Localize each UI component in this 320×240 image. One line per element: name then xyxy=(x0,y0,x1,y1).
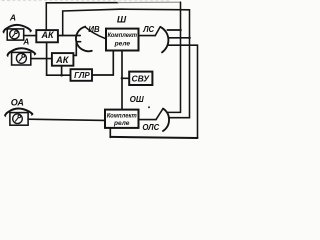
relay box Комплект реле 2 xyxy=(105,110,139,128)
node junction СВУ branch xyxy=(121,77,124,80)
wire АК1 to ИВ arc xyxy=(58,35,80,37)
svg-text:Комплект: Комплект xyxy=(108,32,138,39)
selector ЛС arc (line selector bank) xyxy=(161,27,169,53)
wire Комплект реле 2 bottom to bottom line xyxy=(109,128,111,137)
selector ОЛС wiper xyxy=(156,109,163,120)
selector ОЛС arc xyxy=(163,109,169,131)
svg-text:реле: реле xyxy=(114,41,131,48)
svg-text:реле: реле xyxy=(113,120,130,127)
selector ИВ wiper xyxy=(85,27,106,39)
wire outer top bus (Ш upper) xyxy=(46,3,118,30)
wire ГЛР right to Комплект реле 1 bottom xyxy=(92,51,113,75)
wire АК1 bottom to ГЛР line xyxy=(46,42,48,75)
svg-text:Комплект: Комплект xyxy=(107,113,137,120)
wire Комплект реле 2 to ОЛС wiper xyxy=(139,119,157,121)
node junction bus A xyxy=(179,29,182,32)
wire ЛС outlet 1 xyxy=(167,29,180,31)
wire branch to СВУ xyxy=(122,77,129,79)
ink speck xyxy=(148,106,150,108)
svg-text:ИВ: ИВ xyxy=(88,25,100,34)
svg-text:А: А xyxy=(9,13,16,23)
svg-text:СВУ: СВУ xyxy=(132,74,151,84)
svg-text:А: А xyxy=(22,37,29,47)
wire АК2 bottom to ГЛР line xyxy=(61,66,63,76)
relay box Комплект реле 1 xyxy=(106,29,139,51)
selector ИВ arc (call finder bank) xyxy=(76,27,92,52)
wire bus A right (from outer line to ОЛС output) xyxy=(168,2,181,112)
node junction ГЛР line xyxy=(60,74,63,77)
wire ЛС outlet 2 xyxy=(168,37,189,39)
telephone ОА xyxy=(5,109,33,126)
resistor-style box АК2 xyxy=(52,53,74,66)
wire АК2 right to ИВ arc inlet xyxy=(73,42,80,56)
wire to ГЛР xyxy=(47,74,71,76)
wire bottom line xyxy=(110,137,197,138)
resistor-style box АК1 xyxy=(36,30,58,42)
svg-text:ЛС: ЛС xyxy=(142,25,154,34)
relay box ГЛР xyxy=(71,69,93,81)
selector ЛС wiper xyxy=(155,27,160,36)
wire Комплект реле 1 to ЛС wiper xyxy=(139,35,156,37)
wire Комплект реле 1 to СВУ bus xyxy=(121,51,123,110)
svg-text:АК: АК xyxy=(55,55,70,65)
svg-text:ОШ: ОШ xyxy=(130,95,144,104)
wire phone A to АК1 xyxy=(24,35,37,37)
svg-text:ОЛС: ОЛС xyxy=(142,123,159,132)
svg-text:ГЛР: ГЛР xyxy=(74,71,90,80)
svg-text:Ш: Ш xyxy=(117,15,127,26)
svg-text:АК: АК xyxy=(40,30,54,40)
wire phone ОА to Комплект реле 2 xyxy=(28,119,105,120)
wire bus B right (from inner line to ОЛС output) xyxy=(169,10,190,118)
node junction bus B xyxy=(188,37,191,40)
relay box СВУ xyxy=(129,72,152,85)
telephone 2 xyxy=(7,48,35,65)
scan artifact top edge xyxy=(2,0,170,2)
svg-text:ОА: ОА xyxy=(11,98,24,108)
wire bus C far right (ЛС outlet to bottom line) xyxy=(168,45,198,137)
wire inner top bus (Ш lower) xyxy=(63,9,190,35)
wire phone 2 to АК2 xyxy=(31,58,52,60)
telephone A xyxy=(3,25,31,40)
